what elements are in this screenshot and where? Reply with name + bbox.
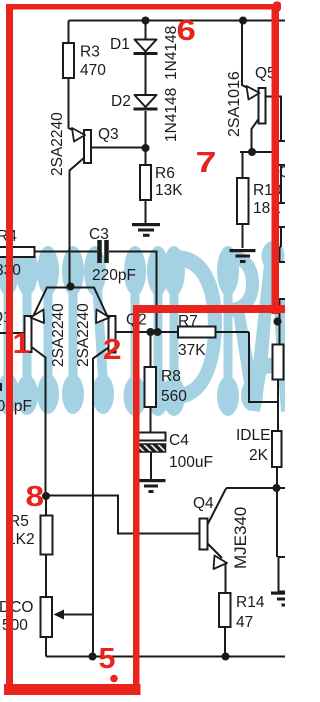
svg-text:470: 470: [80, 62, 106, 79]
svg-text:Q4: Q4: [193, 495, 214, 512]
svg-text:2: 2: [103, 333, 122, 365]
svg-text:MJE340: MJE340: [231, 507, 250, 569]
svg-text:DCO: DCO: [0, 599, 33, 616]
svg-text:R3: R3: [80, 44, 100, 61]
svg-text:IDLE: IDLE: [236, 427, 270, 444]
svg-text:2SA2240: 2SA2240: [49, 112, 66, 176]
svg-text:D1: D1: [110, 36, 130, 53]
svg-text:Q3: Q3: [98, 126, 119, 143]
svg-text:37K: 37K: [178, 342, 206, 359]
svg-text:1: 1: [13, 327, 31, 359]
svg-text:1N4148: 1N4148: [163, 88, 180, 142]
svg-text:5: 5: [99, 643, 116, 675]
svg-text:2K: 2K: [249, 447, 269, 464]
svg-text:560: 560: [161, 388, 187, 405]
svg-text:7: 7: [196, 147, 217, 179]
svg-text:2SA2240: 2SA2240: [50, 303, 67, 367]
svg-text:100pF: 100pF: [0, 398, 32, 415]
svg-text:100uF: 100uF: [169, 454, 213, 471]
svg-text:R8: R8: [161, 368, 181, 385]
svg-text:220pF: 220pF: [92, 267, 136, 284]
svg-text:R6: R6: [155, 165, 175, 182]
svg-text:C4: C4: [169, 432, 189, 449]
svg-text:2SA2240: 2SA2240: [75, 303, 92, 367]
svg-text:8: 8: [26, 480, 45, 512]
svg-text:6: 6: [177, 14, 196, 47]
svg-text:13K: 13K: [155, 182, 183, 199]
svg-text:R14: R14: [236, 594, 265, 611]
svg-text:C3: C3: [89, 226, 109, 243]
svg-text:2SA1016: 2SA1016: [226, 71, 243, 137]
svg-text:Q6: Q6: [279, 164, 285, 181]
svg-text:D2: D2: [111, 93, 131, 110]
svg-text:47: 47: [236, 614, 253, 631]
svg-text:500: 500: [2, 617, 28, 634]
svg-text:R7: R7: [178, 313, 198, 330]
